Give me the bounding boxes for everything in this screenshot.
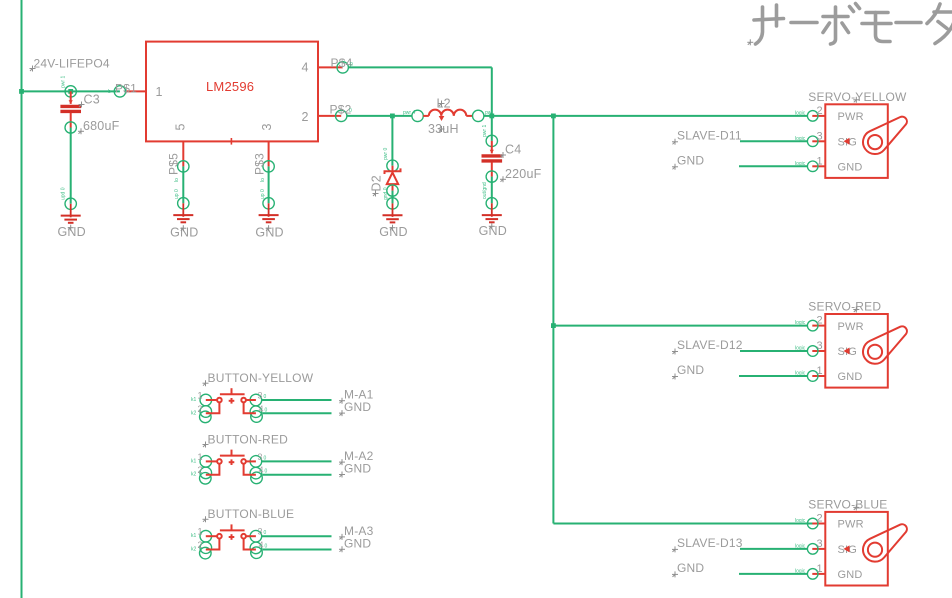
svg-text:logic: logic xyxy=(795,320,806,326)
svg-text:D2: D2 xyxy=(370,175,384,191)
svg-text:3: 3 xyxy=(817,130,823,142)
svg-text:4: 4 xyxy=(302,61,309,75)
svg-text:SLAVE-D11: SLAVE-D11 xyxy=(677,129,742,143)
svg-text:1: 1 xyxy=(817,563,823,575)
svg-text:220uF: 220uF xyxy=(505,167,542,181)
svg-text:SERVO-YELLOW: SERVO-YELLOW xyxy=(808,90,907,104)
svg-text:1: 1 xyxy=(198,452,203,462)
inductor L2 xyxy=(412,110,423,121)
diode D2 (schottky) xyxy=(391,116,393,166)
svg-text:P$5: P$5 xyxy=(167,153,181,175)
svg-text:k2: k2 xyxy=(191,410,197,416)
svg-text:1: 1 xyxy=(817,365,823,377)
svg-text:C4: C4 xyxy=(505,143,521,157)
capacitor C4 xyxy=(491,116,493,141)
svg-text:lo: lo xyxy=(260,178,266,182)
svg-text:2: 2 xyxy=(198,404,203,414)
servo horn icon xyxy=(863,117,907,154)
svg-text:2: 2 xyxy=(817,315,823,327)
wire BUTTON-YELLOW out xyxy=(262,399,332,401)
svg-text:BUTTON-RED: BUTTON-RED xyxy=(208,432,289,446)
svg-text:GND: GND xyxy=(344,400,371,414)
connector SERVO-YELLOW xyxy=(825,104,888,178)
svg-text:2: 2 xyxy=(817,105,823,117)
svg-text:upd 0: upd 0 xyxy=(61,187,67,200)
svg-text:GND: GND xyxy=(838,569,863,581)
svg-text:lo: lo xyxy=(174,178,180,182)
svg-text:GND: GND xyxy=(344,536,371,550)
svg-text:PWR: PWR xyxy=(838,321,864,333)
svg-text:5: 5 xyxy=(174,123,188,130)
wire BUTTON-BLUE out xyxy=(262,535,332,537)
ground: pin5 xyxy=(173,203,193,222)
svg-text:GND: GND xyxy=(677,154,704,168)
svg-text:3: 3 xyxy=(817,340,823,352)
svg-text:P$1: P$1 xyxy=(115,82,137,96)
wire: C3 to GND xyxy=(70,128,72,204)
svg-text:2: 2 xyxy=(198,465,203,475)
svg-text:pwr 1: pwr 1 xyxy=(61,76,67,88)
wire: main 24V vertical rail xyxy=(21,0,23,598)
svg-text:GND: GND xyxy=(838,162,863,174)
svg-text:PWR: PWR xyxy=(838,519,864,531)
svg-text:pwr 1: pwr 1 xyxy=(482,125,488,137)
node: 24V junction xyxy=(19,89,24,94)
wire BUTTON-RED out xyxy=(262,460,332,462)
svg-text:k1: k1 xyxy=(191,397,197,403)
wire: servo power rail vertical xyxy=(552,116,554,524)
wire: 24V feed to LM2596 pin1 xyxy=(22,90,120,92)
svg-text:P$3: P$3 xyxy=(253,153,267,175)
svg-text:3: 3 xyxy=(817,538,823,550)
svg-text:pwr 0: pwr 0 xyxy=(383,148,389,160)
svg-text:pwr 4: pwr 4 xyxy=(403,110,415,116)
connector SERVO-BLUE xyxy=(825,512,888,586)
svg-text:b: b xyxy=(108,89,111,95)
svg-text:gnd 0: gnd 0 xyxy=(383,187,389,200)
wire: L2 out to node xyxy=(484,115,554,117)
svg-text:logic: logic xyxy=(795,518,806,524)
svg-text:GND: GND xyxy=(344,462,371,476)
svg-text:2: 2 xyxy=(198,540,203,550)
wire: pin4 net to C4 node xyxy=(348,66,492,68)
svg-text:BUTTON-BLUE: BUTTON-BLUE xyxy=(208,507,295,521)
svg-text:LM2596: LM2596 xyxy=(206,79,254,94)
capacitor C3 xyxy=(68,89,73,94)
svg-text:2: 2 xyxy=(302,110,309,124)
wire: to servo-red PWR xyxy=(553,325,807,327)
connector SERVO-RED xyxy=(825,314,888,388)
wire: pin2 net to inductor xyxy=(347,115,412,117)
svg-text:GND: GND xyxy=(838,371,863,383)
svg-text:GND: GND xyxy=(677,561,704,575)
svg-text:C3: C3 xyxy=(84,92,100,106)
ground: D2 xyxy=(383,203,403,222)
svg-text:logic: logic xyxy=(795,110,806,116)
node: servo feed xyxy=(551,114,556,119)
svg-text:680uF: 680uF xyxy=(83,119,120,133)
svg-text:SERVO-RED: SERVO-RED xyxy=(808,300,881,314)
svg-text:SLAVE-D12: SLAVE-D12 xyxy=(677,338,743,352)
svg-text:k1: k1 xyxy=(191,533,197,539)
svg-text:BUTTON-YELLOW: BUTTON-YELLOW xyxy=(208,371,314,385)
svg-text:up 0: up 0 xyxy=(174,189,180,199)
svg-text:k2: k2 xyxy=(191,547,197,553)
svg-text:3: 3 xyxy=(260,123,274,130)
servo horn icon xyxy=(863,326,907,363)
node: D2 branch xyxy=(390,114,395,119)
ground: C3 xyxy=(61,204,81,223)
svg-text:k1: k1 xyxy=(191,458,197,464)
svg-text:1: 1 xyxy=(156,85,163,99)
svg-text:1: 1 xyxy=(198,391,203,401)
ground: C4 xyxy=(482,203,502,222)
label: servo motor title (katakana) xyxy=(754,4,952,45)
svg-text:PWR: PWR xyxy=(838,111,864,123)
svg-text:out/gnd: out/gnd xyxy=(482,182,488,199)
svg-text:2: 2 xyxy=(817,513,823,525)
wire: to servo-yellow PWR xyxy=(553,115,807,117)
svg-text:GND: GND xyxy=(677,363,704,377)
svg-text:k2: k2 xyxy=(191,472,197,478)
svg-text:SLAVE-D13: SLAVE-D13 xyxy=(677,536,743,550)
svg-text:0: 0 xyxy=(349,108,352,114)
svg-text:1: 1 xyxy=(198,527,203,537)
svg-text:24V-LIFEPO4: 24V-LIFEPO4 xyxy=(34,56,110,70)
node: C4 top xyxy=(489,114,494,119)
servo horn icon xyxy=(863,524,907,561)
node: servo-red tap xyxy=(551,323,556,328)
svg-text:SERVO-BLUE: SERVO-BLUE xyxy=(808,497,887,511)
svg-text:1: 1 xyxy=(817,155,823,167)
svg-text:up 0: up 0 xyxy=(260,189,266,199)
wire: to servo-blue xyxy=(553,523,812,525)
op-amp: (IC) LM2596 body xyxy=(146,42,318,142)
ground: pin3 xyxy=(259,203,279,222)
